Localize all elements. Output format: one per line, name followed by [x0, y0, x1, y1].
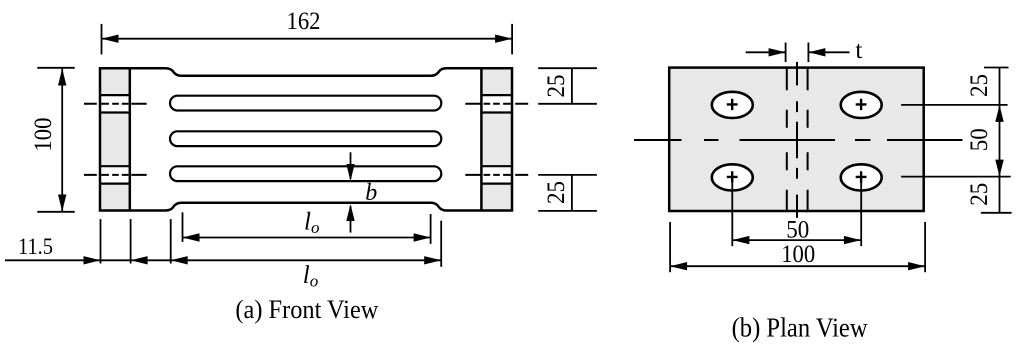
bolt hole ellipse bottom-left: [712, 164, 753, 190]
slot 2: [170, 131, 441, 146]
bottom extension line x=441.2: [440, 221, 442, 267]
dim lo upper line: [183, 237, 431, 239]
dim 100 bottom arrow: [58, 195, 66, 212]
right grip band lines: [481, 95, 513, 184]
bottom extension line right: [924, 222, 926, 272]
t dim right arrow: [808, 51, 849, 53]
hidden line right x=807.6: [807, 68, 809, 211]
hidden line left x=786.8: [786, 68, 788, 211]
bolt hole ellipse bottom-right: [841, 164, 882, 190]
svg-text:100: 100: [30, 118, 57, 152]
right 25 top: extension lines: [538, 67, 597, 69]
svg-text:t: t: [855, 37, 862, 64]
bolt hole ellipse top-right: [841, 92, 882, 118]
dim b up arrow: [350, 206, 352, 233]
left grip band lines: [99, 95, 130, 184]
svg-text:lo: lo: [304, 208, 319, 237]
right bolt centerline row1: [465, 103, 528, 105]
svg-text:11.5: 11.5: [18, 234, 53, 259]
svg-text:lo: lo: [303, 262, 318, 291]
right dim down arrow: [995, 160, 1003, 177]
dim 162 extension lines: [101, 24, 103, 55]
horizontal centerline y=140: [634, 139, 963, 141]
slot 3: [170, 166, 441, 181]
svg-text:25: 25: [543, 181, 570, 204]
right grip inner edge: [480, 68, 483, 210]
dim 100 extension lines: [37, 67, 74, 69]
dim 11.5 right-pointing arrow: [84, 256, 101, 264]
svg-text:50: 50: [786, 217, 809, 244]
svg-text:25: 25: [966, 183, 993, 206]
plus top-right: [856, 99, 867, 110]
dim 11.5 left-pointing arrow: [131, 256, 148, 264]
left bolt centerline row1: [84, 103, 147, 105]
bottom extension line x=130.6: [130, 219, 132, 263]
svg-text:(b) Plan View: (b) Plan View: [732, 313, 868, 343]
t dim left arrow: [746, 51, 786, 53]
bottom extension line x=170.7: [170, 219, 172, 263]
dim 100 top arrow: [58, 69, 66, 86]
plus top-left: [727, 99, 738, 110]
svg-text:(a) Front View: (a) Front View: [235, 294, 379, 324]
right grip gray strip: [481, 68, 512, 210]
row2 line to dims: [901, 176, 1011, 178]
left bolt centerline row2: [84, 174, 147, 176]
right bottom extension line: [981, 212, 1012, 214]
dim b down arrow: [350, 152, 352, 179]
left grip inner edge: [129, 68, 132, 210]
right dim up arrow: [995, 105, 1003, 122]
bolt column line left: [731, 177, 733, 246]
dim 11.5 leader line: [5, 259, 171, 261]
right bolt centerline row2: [465, 174, 528, 176]
right 25 bottom: extension lines: [538, 174, 597, 176]
bottom extension line x=430.6: [430, 214, 432, 244]
row1 line to dims: [901, 104, 1008, 106]
dim 162 right arrow: [495, 35, 512, 43]
t dim tick left: [785, 43, 787, 63]
svg-text:50: 50: [966, 128, 993, 151]
slot 1: [170, 96, 441, 111]
dim lo upper right arrow: [414, 233, 431, 241]
svg-text:25: 25: [543, 75, 570, 98]
dim 162 line: [102, 38, 513, 40]
plate rectangle: [669, 68, 924, 211]
right 25 bottom vertical line: [571, 175, 573, 211]
plus bottom-left: [727, 171, 738, 182]
bottom extension line left: [669, 222, 671, 272]
specimen outline: [100, 68, 512, 210]
svg-text:b: b: [365, 180, 377, 206]
plus bottom-right: [856, 171, 867, 182]
dim 100 line: [61, 69, 63, 212]
dim 162 left arrow: [102, 35, 119, 43]
left grip gray strip: [100, 68, 130, 210]
t dim tick right: [807, 43, 809, 63]
bolt hole ellipse top-left: [712, 92, 753, 118]
dim lo upper left arrow: [183, 233, 200, 241]
bottom extension line x=182.5: [182, 212, 184, 242]
bottom extension line x=100.5: [100, 219, 102, 263]
dim lo lower left arrow: [171, 256, 188, 264]
svg-text:100: 100: [781, 241, 815, 268]
vertical centerline x=797: [796, 62, 798, 218]
dim lo lower line: [171, 259, 442, 261]
bolt column line right: [860, 177, 862, 246]
dim 50 bottom line: [732, 239, 861, 241]
svg-text:162: 162: [287, 8, 321, 35]
dim lo lower right arrow: [424, 256, 441, 264]
right 25 top vertical line: [571, 68, 573, 104]
dim 100 bottom line: [670, 265, 925, 267]
right top extension line: [984, 67, 1009, 69]
right dim vertical line: [999, 68, 1001, 213]
svg-text:25: 25: [966, 74, 993, 97]
